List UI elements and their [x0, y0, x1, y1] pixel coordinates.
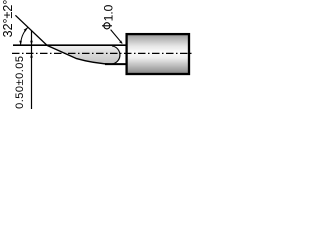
dim arrowhead up (at centerline): [30, 53, 33, 57]
tip top edge with left extension line: [13, 44, 126, 46]
tip end ellipse arc: [112, 46, 120, 64]
diameter symbol phi: [104, 23, 110, 29]
tip body (beveled cylinder) fill: [47, 45, 121, 64]
vertical dimension line 0.50: [31, 31, 33, 109]
angle line (bevel angle reference): [15, 15, 47, 45]
svg-text:0.50±0.05: 0.50±0.05: [14, 56, 26, 109]
svg-text:32°±2°: 32°±2°: [1, 0, 15, 37]
angle dimension arc: [21, 28, 28, 46]
tip bevel edge: [47, 45, 112, 64]
shaft body: [127, 34, 189, 74]
tip bottom edge: [105, 63, 126, 65]
arc arrowhead upper (pointing at angle line): [24, 27, 28, 31]
leader line for diameter: [111, 30, 122, 44]
arc arrowhead lower (pointing down at extension line): [19, 41, 22, 45]
centerline (dash-dot axis): [12, 52, 193, 54]
dim arrowhead down (at top edge line): [30, 41, 33, 45]
leader arrowhead: [119, 41, 122, 45]
svg-text:1.0: 1.0: [101, 4, 115, 21]
